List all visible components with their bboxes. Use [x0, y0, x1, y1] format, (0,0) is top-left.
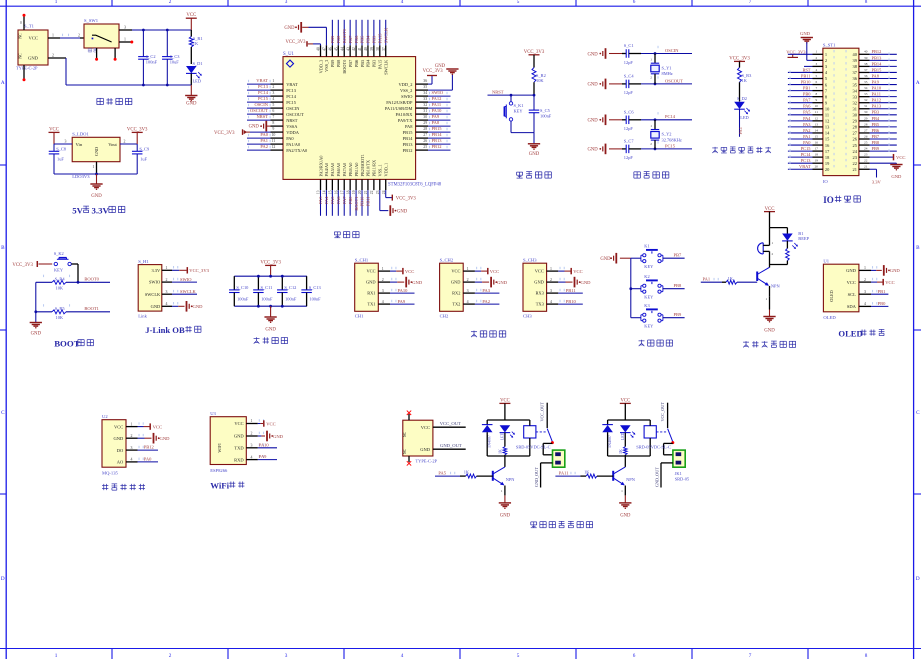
ground GND oled — [871, 269, 876, 271]
ground GND reset — [533, 133, 535, 144]
wire PB0 oled — [871, 305, 888, 307]
svg-text:PA1: PA1 — [703, 276, 711, 281]
svg-text:GND: GND — [588, 119, 599, 124]
wire PA0 mq135 — [138, 461, 159, 463]
svg-text:JK1: JK1 — [675, 471, 682, 476]
svg-text:3: 3 — [65, 139, 67, 143]
pin S_ST1.3 — [813, 65, 823, 67]
svg-text:43: 43 — [346, 47, 350, 51]
svg-text:OSCIN: OSCIN — [665, 48, 679, 53]
pin U1oled.4 SDA — [859, 305, 871, 307]
svg-text:PA11: PA11 — [432, 102, 442, 107]
svg-text:PB14: PB14 — [872, 61, 883, 66]
svg-text:PA10: PA10 — [432, 108, 443, 113]
svg-text:BOOT0: BOOT0 — [84, 277, 99, 282]
pin S_CH3.4 TX3 — [547, 303, 559, 305]
svg-text:2: 2 — [382, 278, 384, 282]
pin U1.34 SWIO — [416, 95, 428, 97]
svg-text:S_U1: S_U1 — [283, 52, 295, 57]
svg-text:S_C5: S_C5 — [540, 108, 551, 113]
module U1 OLED — [823, 264, 859, 312]
svg-text:CH2: CH2 — [440, 314, 449, 319]
svg-text:PA10: PA10 — [259, 442, 270, 447]
wire T1 VCC to switch — [48, 37, 60, 39]
pin typec relay bottom — [408, 456, 410, 462]
svg-text:PA1: PA1 — [738, 127, 743, 134]
svg-text:25: 25 — [864, 140, 868, 144]
wire PA10 wifi — [258, 447, 277, 449]
svg-text:D: D — [916, 576, 920, 582]
svg-text:GND: GND — [800, 31, 811, 36]
svg-text:PB11/RX: PB11/RX — [372, 159, 377, 176]
wire SWCLK jlink — [172, 293, 197, 295]
svg-text:LDO3V3: LDO3V3 — [72, 174, 90, 179]
pin U1.18 PB0/A0 — [349, 179, 351, 190]
pin S_ST1.14 — [813, 132, 823, 134]
svg-text:GND_OUT: GND_OUT — [655, 467, 660, 487]
title filter circuit — [254, 337, 260, 339]
wire ldo vout — [120, 143, 137, 145]
svg-text:1K: 1K — [584, 469, 590, 474]
svg-text:20: 20 — [815, 165, 819, 169]
svg-text:28: 28 — [864, 122, 868, 126]
wire PA2 — [475, 303, 500, 305]
wire VDDA — [245, 131, 251, 133]
svg-text:35: 35 — [864, 80, 868, 84]
svg-text:17: 17 — [815, 147, 819, 151]
svg-text:6: 6 — [815, 80, 817, 84]
resistor S_R5 10K — [36, 311, 52, 313]
wire base alarm — [701, 281, 722, 283]
pin S_ST1.34 — [859, 90, 870, 92]
ground GND wifi — [258, 435, 262, 437]
pin S_CH3.1 VCC — [547, 270, 559, 272]
svg-text:GND: GND — [764, 329, 775, 334]
svg-text:GND: GND — [600, 257, 611, 262]
svg-text:VCC: VCC — [421, 425, 430, 430]
svg-text:IO: IO — [823, 195, 834, 205]
wire relay emitter to gnd — [504, 486, 506, 496]
svg-text:S_D1: S_D1 — [193, 61, 203, 66]
svg-text:PA13: PA13 — [872, 104, 882, 109]
svg-text:S_CH2: S_CH2 — [440, 258, 454, 263]
svg-text:PB8: PB8 — [336, 60, 341, 67]
svg-text:VCC_3V3: VCC_3V3 — [396, 197, 417, 202]
pin U1oled.3 SCL — [859, 293, 871, 295]
svg-text:NC: NC — [19, 33, 23, 39]
regulator S_LDO1 — [72, 137, 120, 161]
svg-text:5: 5 — [517, 0, 520, 5]
svg-text:5V: 5V — [72, 206, 83, 216]
svg-text:PA5: PA5 — [330, 196, 335, 204]
svg-text:S_SW1: S_SW1 — [84, 18, 99, 23]
switch bottom pins — [96, 48, 98, 58]
pin S_ST1.4 — [813, 71, 823, 73]
svg-text:OLED: OLED — [823, 315, 836, 320]
svg-text:VCC: VCC — [490, 269, 499, 274]
svg-text:SRD-05VDC-SL-C: SRD-05VDC-SL-C — [636, 444, 671, 449]
svg-text:22: 22 — [864, 159, 868, 163]
pin U1.8 VSSA — [271, 125, 284, 127]
svg-text:PA2/TX/A0: PA2/TX/A0 — [286, 148, 308, 153]
pin S_ST1.28 — [859, 126, 870, 128]
svg-text:GND: GND — [500, 514, 511, 519]
pin U3.4 RXD — [246, 459, 257, 461]
svg-text:PB4: PB4 — [366, 59, 371, 67]
svg-text:GND: GND — [265, 328, 276, 333]
svg-text:100nF: 100nF — [237, 296, 249, 301]
svg-text:PA11: PA11 — [872, 92, 881, 97]
svg-text:STM32F103C8T6_LQFP48: STM32F103C8T6_LQFP48 — [388, 182, 442, 187]
ground GND S_CH2 — [475, 281, 482, 283]
power VCC mq135 — [138, 426, 144, 428]
svg-text:S_K1: S_K1 — [514, 103, 524, 108]
connector JK SRD-05 — [553, 450, 565, 467]
svg-text:PA1: PA1 — [803, 134, 810, 139]
svg-text:8: 8 — [272, 121, 274, 125]
svg-text:PB3: PB3 — [372, 35, 377, 43]
svg-text:PA15: PA15 — [378, 60, 383, 69]
svg-text:2: 2 — [550, 278, 552, 282]
pin S_ST1.25 — [859, 144, 870, 146]
svg-text:100nF: 100nF — [261, 296, 273, 301]
svg-text:PB12: PB12 — [403, 148, 413, 153]
svg-text:PB8: PB8 — [872, 140, 880, 145]
pin S_ST1.20 — [813, 168, 823, 170]
svg-text:30: 30 — [864, 110, 868, 114]
svg-text:PC13: PC13 — [801, 158, 812, 163]
svg-text:KEY: KEY — [644, 294, 654, 299]
svg-text:GND: GND — [94, 147, 99, 156]
svg-text:OLED: OLED — [838, 329, 862, 339]
capacitor S_C11 100nF — [257, 276, 259, 290]
svg-text:GND: GND — [497, 280, 508, 285]
svg-text:Link: Link — [138, 313, 147, 318]
svg-text:3: 3 — [272, 91, 274, 95]
svg-text:VCC: VCC — [847, 280, 856, 285]
wire filter bottom rail — [234, 305, 307, 307]
svg-text:29: 29 — [423, 121, 427, 125]
svg-text:PB15: PB15 — [432, 126, 443, 131]
pin U1.43 PB7 — [349, 45, 351, 56]
svg-text:PA3: PA3 — [482, 288, 490, 293]
svg-text:PB4: PB4 — [872, 116, 880, 121]
pin S_CH1.1 VCC — [378, 270, 390, 272]
ground GND ldo — [96, 174, 98, 184]
svg-text:PA0: PA0 — [144, 457, 152, 462]
svg-text:PA12/USB/DP: PA12/USB/DP — [386, 100, 413, 105]
svg-text:24: 24 — [864, 147, 868, 151]
svg-text:VBAT: VBAT — [256, 78, 268, 83]
svg-text:11: 11 — [815, 110, 819, 114]
MCU U1 STM32F103C8T6 — [283, 57, 416, 180]
svg-text:2: 2 — [772, 252, 774, 256]
svg-text:B: B — [1, 245, 5, 251]
connector TYPE-C-2P relay — [403, 420, 433, 456]
pin S_ST1.2 — [813, 59, 823, 61]
wire key K2 to PB8 — [663, 288, 685, 290]
svg-text:3: 3 — [285, 0, 288, 5]
svg-text:SWCLK: SWCLK — [180, 289, 197, 294]
svg-text:S_C9: S_C9 — [139, 147, 150, 152]
svg-text:S_Y1: S_Y1 — [662, 65, 672, 70]
svg-text:NC: NC — [403, 431, 407, 437]
svg-text:27: 27 — [864, 128, 868, 132]
button S_K1 KEY — [510, 95, 512, 102]
svg-text:18: 18 — [815, 153, 819, 157]
svg-text:VCC: VCC — [535, 269, 544, 274]
svg-text:PB13: PB13 — [432, 138, 443, 143]
svg-text:12: 12 — [271, 145, 275, 149]
svg-text:1K: 1K — [193, 41, 199, 46]
svg-text:PB15: PB15 — [403, 130, 414, 135]
pin S_CH2.1 VCC — [463, 270, 475, 272]
svg-text:12: 12 — [815, 116, 819, 120]
svg-text:3.3V: 3.3V — [92, 206, 110, 216]
relay contact — [667, 403, 669, 428]
pin U1.27 PB14 — [416, 137, 428, 139]
svg-text:S_T1: S_T1 — [24, 24, 35, 29]
svg-text:GND: GND — [273, 434, 284, 439]
button K3 KEY — [643, 313, 646, 316]
svg-text:KEY: KEY — [54, 268, 64, 273]
capacitor S_C13 100nF — [306, 276, 308, 290]
svg-text:PA9/TX: PA9/TX — [398, 118, 413, 123]
svg-text:1: 1 — [251, 419, 253, 423]
svg-text:47: 47 — [323, 47, 327, 51]
svg-text:PC13: PC13 — [286, 88, 297, 93]
wire key K2 left — [631, 288, 641, 290]
svg-text:PA8: PA8 — [405, 124, 413, 129]
svg-text:4: 4 — [401, 653, 404, 659]
ground GND filter — [270, 306, 272, 317]
svg-text:S_C7: S_C7 — [624, 138, 635, 143]
svg-text:46: 46 — [328, 47, 332, 51]
svg-text:PA0: PA0 — [286, 136, 294, 141]
svg-text:GND: GND — [891, 174, 902, 179]
svg-text:SWIO: SWIO — [149, 280, 160, 285]
connector S_T1 TYPE-C-2P — [18, 30, 48, 65]
svg-text:NPN: NPN — [506, 477, 516, 482]
pin S_T1.top — [23, 16, 25, 30]
pin S_ST1.22 — [859, 162, 870, 164]
svg-text:SWCLK: SWCLK — [383, 27, 388, 43]
wire io pin3 — [804, 65, 813, 67]
resistor S_R4 10K — [36, 281, 52, 283]
svg-text:TX1: TX1 — [367, 302, 375, 307]
svg-text:1: 1 — [501, 489, 503, 493]
pin U1.31 PA10/RX — [416, 113, 428, 115]
svg-text:7: 7 — [815, 86, 817, 90]
svg-text:PA4/A0: PA4/A0 — [324, 163, 329, 177]
svg-text:PC15: PC15 — [801, 146, 812, 151]
svg-text:S_H1: S_H1 — [138, 259, 149, 264]
pin U1.16 PA6/A0 — [337, 179, 339, 190]
svg-text:VDD_1: VDD_1 — [384, 163, 389, 177]
svg-text:3.3V: 3.3V — [152, 268, 161, 273]
svg-text:KEY: KEY — [644, 264, 654, 269]
svg-text:S_Y2: S_Y2 — [662, 132, 672, 137]
svg-text:GND: GND — [581, 280, 592, 285]
svg-text:1uF: 1uF — [57, 157, 64, 162]
pin U1.3 PC14 — [271, 95, 284, 97]
wire PA9 wifi — [258, 459, 277, 461]
svg-text:VCC: VCC — [186, 13, 196, 18]
svg-text:GND: GND — [284, 26, 295, 31]
wire key K1 to PB7 — [663, 257, 685, 259]
svg-text:21: 21 — [853, 167, 857, 172]
ground GND jlink — [172, 305, 178, 307]
LED relay — [620, 425, 631, 432]
svg-text:C: C — [1, 410, 5, 416]
diode 1N4007 flyback — [607, 420, 609, 425]
wire relay base — [555, 475, 580, 477]
svg-text:GND: GND — [31, 332, 42, 337]
pin S_T1.bottom — [23, 65, 25, 79]
wire relay top rail — [487, 419, 530, 421]
pin U2.2 GND — [126, 437, 138, 439]
svg-text:U2: U2 — [102, 414, 108, 419]
svg-text:RXD: RXD — [234, 457, 244, 462]
pin S_ST1.12 — [813, 120, 823, 122]
pin S_ST1.40 — [859, 53, 870, 55]
svg-text:39: 39 — [370, 47, 374, 51]
svg-text:U3: U3 — [210, 411, 216, 416]
pin S_CH1.3 RX1 — [378, 292, 390, 294]
svg-text:K1: K1 — [644, 244, 649, 249]
capacitor S_C3 10uF — [166, 30, 168, 57]
svg-text:S_D2: S_D2 — [737, 96, 747, 101]
svg-text:36: 36 — [864, 74, 868, 78]
svg-text:SWCLK: SWCLK — [384, 59, 389, 75]
svg-text:19: 19 — [815, 159, 819, 163]
svg-text:27: 27 — [423, 133, 427, 137]
ground GND alarm — [769, 296, 771, 309]
svg-text:PB9: PB9 — [674, 312, 683, 317]
relay contact — [546, 403, 548, 428]
svg-text:S_C4: S_C4 — [624, 73, 635, 78]
svg-text:PA7/A0: PA7/A0 — [342, 163, 347, 177]
svg-text:3: 3 — [251, 444, 253, 448]
svg-text:S_LDO1: S_LDO1 — [72, 132, 89, 137]
svg-text:PB8: PB8 — [336, 35, 341, 43]
svg-text:ESP8266: ESP8266 — [210, 468, 228, 473]
relay coil — [524, 426, 536, 438]
svg-text:PA9: PA9 — [872, 79, 880, 84]
svg-text:1: 1 — [467, 267, 469, 271]
svg-text:BOOT: BOOT — [54, 339, 80, 349]
svg-text:PB11: PB11 — [801, 73, 811, 78]
svg-text:8: 8 — [815, 92, 817, 96]
pin U1.32 PA11/USB/DM — [416, 107, 428, 109]
svg-text:5: 5 — [272, 103, 274, 107]
switch S_SW1 — [84, 24, 119, 48]
wire VCC_OUT — [433, 426, 466, 428]
svg-text:K2: K2 — [644, 274, 649, 279]
svg-text:30: 30 — [423, 115, 427, 119]
svg-text:LED: LED — [740, 115, 749, 120]
pin U1.30 PA9/TX — [416, 119, 428, 121]
svg-text:S_R4: S_R4 — [55, 277, 66, 282]
svg-text:OSCIN: OSCIN — [254, 102, 268, 107]
svg-text:GND: GND — [186, 102, 197, 107]
svg-text:100nF: 100nF — [146, 59, 158, 64]
svg-text:PA12: PA12 — [432, 96, 442, 101]
wire OSCIN — [641, 53, 692, 55]
svg-text:BOOT1: BOOT1 — [354, 197, 359, 211]
svg-text:1: 1 — [382, 267, 384, 271]
svg-text:38: 38 — [376, 47, 380, 51]
svg-text:3: 3 — [124, 25, 126, 29]
pin S_ST1.35 — [859, 84, 870, 86]
svg-text:6: 6 — [272, 109, 274, 113]
svg-text:1K: 1K — [464, 469, 470, 474]
svg-text:SWIO: SWIO — [180, 277, 192, 282]
capacitor S_C8 1uF — [53, 144, 55, 151]
svg-text:2: 2 — [124, 139, 126, 143]
resistor alarm led — [786, 241, 788, 249]
wire power ground rail — [66, 84, 191, 86]
svg-text:31: 31 — [853, 106, 857, 111]
wire alarm top node — [770, 227, 788, 229]
svg-text:PB7: PB7 — [872, 134, 880, 139]
svg-text:22: 22 — [853, 161, 857, 166]
svg-text:J-Link OB: J-Link OB — [145, 325, 185, 335]
svg-text:PC14: PC14 — [286, 94, 297, 99]
svg-text:GND: GND — [529, 152, 540, 157]
svg-text:GND: GND — [160, 436, 171, 441]
pin U1.2 PC13 — [271, 89, 284, 91]
pin S_ST1.24 — [859, 150, 870, 152]
svg-text:KEY: KEY — [514, 109, 524, 114]
title crystal circuit — [634, 171, 640, 173]
button S_K2 KEY — [54, 262, 57, 265]
pin S_ST1.16 — [813, 144, 823, 146]
pin S_CH2.2 GND — [463, 281, 475, 283]
svg-text:VCC_3V3: VCC_3V3 — [285, 40, 306, 45]
svg-text:2: 2 — [650, 142, 652, 146]
pin U3.2 GND — [246, 435, 257, 437]
svg-text:1: 1 — [772, 241, 774, 245]
svg-text:9: 9 — [272, 127, 274, 131]
pin U1.29 PA8 — [416, 125, 428, 127]
svg-text:22: 22 — [370, 190, 374, 194]
svg-text:VDD_3: VDD_3 — [318, 60, 323, 74]
svg-text:23: 23 — [864, 153, 868, 157]
svg-text:VCC_3V3: VCC_3V3 — [12, 263, 33, 268]
svg-text:1: 1 — [815, 50, 817, 54]
svg-text:PA11: PA11 — [559, 470, 569, 475]
svg-text:S_C10: S_C10 — [236, 285, 249, 290]
svg-text:100nF: 100nF — [309, 296, 321, 301]
pin U1.12 PA2/TX/A0 — [271, 149, 284, 151]
svg-text:RST: RST — [802, 67, 810, 72]
svg-text:K3: K3 — [644, 303, 650, 308]
svg-text:3: 3 — [166, 290, 168, 294]
svg-text:13: 13 — [815, 122, 819, 126]
svg-text:PB11: PB11 — [566, 288, 576, 293]
wire NRST — [488, 94, 535, 96]
header S_ST1 IO — [823, 48, 859, 175]
wire relay contact to jk top — [664, 442, 673, 444]
svg-text:1uF: 1uF — [140, 157, 147, 162]
svg-text:PA2: PA2 — [803, 128, 810, 133]
ground GND boot — [30, 322, 42, 324]
transistor NPN relay — [612, 471, 614, 481]
pin S_ST1.10 — [813, 108, 823, 110]
svg-text:VCC_3V3: VCC_3V3 — [214, 131, 235, 136]
pin U1.35 VSS_2 — [416, 89, 428, 91]
